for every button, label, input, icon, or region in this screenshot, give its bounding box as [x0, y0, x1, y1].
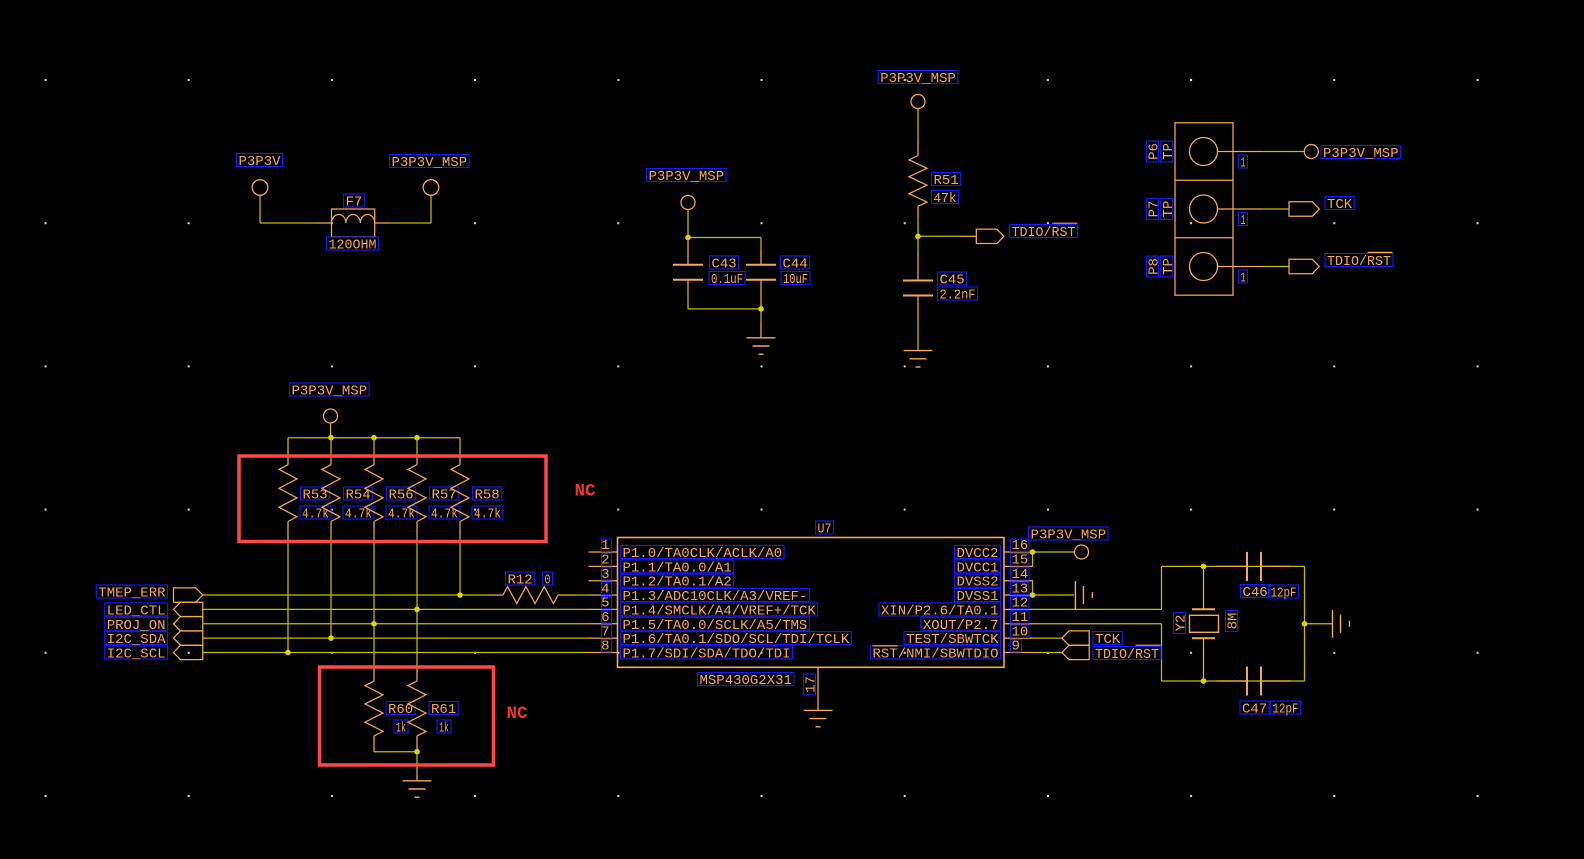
node junction	[1030, 592, 1036, 598]
resistor R57 4.7k	[408, 438, 460, 534]
svg-text:TP: TP	[1161, 258, 1177, 275]
svg-text:120OHM: 120OHM	[329, 238, 377, 254]
wire	[917, 322, 919, 351]
wire TMEP_ERR	[203, 594, 488, 596]
wire I2C_SCL	[203, 651, 589, 653]
wire	[373, 534, 375, 668]
svg-text:R51: R51	[934, 173, 959, 189]
off-page connector TDIO/RST	[1062, 645, 1161, 663]
svg-text:P3P3V_MSP: P3P3V_MSP	[880, 71, 956, 87]
svg-text:TCK: TCK	[1095, 632, 1121, 648]
svg-text:P3P3V_MSP: P3P3V_MSP	[1031, 528, 1107, 544]
off-page connector TDIO/RST	[1289, 252, 1393, 273]
pin 17 ground pin	[804, 667, 820, 710]
svg-text:C47: C47	[1242, 702, 1267, 718]
svg-text:P1.7/SDI/SDA/TDO/TDI: P1.7/SDI/SDA/TDO/TDI	[623, 646, 791, 662]
svg-text:F7: F7	[346, 195, 363, 211]
pin 11 XOUT/P2.7	[921, 610, 1033, 634]
wire I2C_SDA	[203, 637, 589, 639]
resistor R54 4.7k	[322, 438, 374, 534]
svg-text:R61: R61	[431, 702, 456, 718]
wire TCK	[1033, 637, 1062, 639]
node junction	[915, 234, 921, 240]
svg-text:10uF: 10uF	[783, 272, 808, 288]
node junction	[414, 435, 420, 441]
wire TDIO/RST	[1033, 651, 1062, 653]
svg-text:2.2nF: 2.2nF	[940, 288, 976, 304]
resistor R56 4.7k	[365, 438, 417, 534]
svg-text:NC: NC	[507, 704, 529, 724]
wire	[688, 295, 761, 322]
wire	[1262, 208, 1289, 210]
svg-text:P3P3V_MSP: P3P3V_MSP	[392, 155, 468, 171]
svg-text:I2C_SCL: I2C_SCL	[107, 646, 166, 662]
svg-text:C46: C46	[1243, 585, 1268, 601]
wire	[917, 236, 919, 251]
svg-text:1: 1	[1241, 156, 1246, 172]
ferrite bead F7	[317, 194, 389, 254]
wire	[330, 534, 332, 638]
wire	[288, 423, 460, 438]
pin 10 TEST/SBWTCK	[904, 624, 1033, 648]
pin 13 DVSS1	[955, 581, 1034, 605]
svg-text:RST/NMI/SBWTDIO: RST/NMI/SBWTDIO	[873, 646, 999, 662]
wire PROJ_ON	[203, 623, 589, 625]
wire	[1262, 266, 1289, 268]
svg-text:0: 0	[545, 573, 551, 589]
net label LED_CTL	[105, 602, 203, 619]
node junction	[414, 607, 420, 613]
wire DVCC	[1033, 552, 1075, 566]
wire	[575, 594, 589, 596]
svg-text:C43: C43	[712, 257, 737, 273]
svg-text:NC: NC	[575, 481, 597, 501]
svg-text:MSP430G2X31: MSP430G2X31	[700, 673, 792, 689]
ground	[804, 709, 833, 711]
svg-text:TDIO/RST: TDIO/RST	[1095, 647, 1159, 663]
pin 9 RST/NMI/SBWTDIO	[871, 639, 1034, 663]
node junction	[285, 650, 291, 656]
wire	[416, 534, 418, 668]
overline RST	[873, 645, 898, 647]
pin 3 P1.2/TA0.1/A2	[589, 567, 734, 591]
label P6 TP	[1147, 141, 1177, 162]
svg-text:9: 9	[1012, 639, 1020, 655]
NC box	[239, 456, 546, 542]
svg-text:8: 8	[601, 639, 609, 655]
NC box	[320, 667, 494, 765]
resistor R12 0	[488, 572, 575, 604]
wire	[688, 210, 761, 251]
svg-text:U7: U7	[818, 522, 832, 538]
svg-text:8M: 8M	[1226, 613, 1242, 630]
ground	[904, 350, 933, 352]
label P7 TP	[1147, 199, 1177, 220]
wire	[1305, 566, 1333, 681]
op-amp U7 body	[618, 521, 1005, 689]
net label I2C_SCL	[105, 645, 203, 662]
node junction	[1201, 564, 1207, 570]
ground	[1074, 581, 1076, 609]
resistor R60 1k	[365, 668, 415, 752]
ground	[403, 765, 432, 797]
node junction	[758, 306, 764, 312]
wire XOUT	[1033, 624, 1305, 681]
svg-text:1k: 1k	[439, 721, 449, 737]
power symbol P3P3V_MSP	[1029, 527, 1109, 559]
pin 1 of P6	[1218, 152, 1263, 172]
crystal Y2 8M	[1174, 566, 1242, 681]
capacitor C47 12pF	[1217, 667, 1301, 718]
pin 1 of P8	[1218, 267, 1263, 287]
label P8 TP	[1147, 256, 1177, 277]
svg-text:TCK: TCK	[1327, 197, 1353, 213]
capacitor C44	[746, 250, 810, 309]
node junction	[685, 235, 691, 241]
node junction	[1302, 621, 1308, 627]
capacitor C43	[673, 238, 745, 296]
wire	[374, 752, 417, 765]
wire	[918, 218, 976, 236]
test point P7 circle	[1190, 195, 1218, 223]
power symbol P3P3V_MSP	[390, 155, 470, 196]
pin 7 P1.6/TA0.1/SDO/SCL/TDI/TCLK	[589, 624, 852, 648]
capacitor C45 2.2nF	[903, 251, 978, 322]
svg-text:1k: 1k	[396, 721, 406, 737]
wire DVSS	[1033, 581, 1075, 595]
svg-text:0.1uF: 0.1uF	[711, 272, 743, 288]
wire	[287, 534, 289, 652]
svg-text:12pF: 12pF	[1271, 586, 1297, 602]
wire	[260, 195, 317, 224]
svg-text:12pF: 12pF	[1273, 702, 1299, 718]
svg-text:P3P3V_MSP: P3P3V_MSP	[292, 384, 368, 400]
svg-text:P3P3V_MSP: P3P3V_MSP	[1323, 146, 1399, 162]
net label TMEP_ERR	[96, 585, 203, 602]
svg-text:TMEP_ERR: TMEP_ERR	[98, 586, 166, 602]
wire LED_CTL	[203, 608, 589, 610]
node junction	[371, 435, 377, 441]
power symbol P3P3V_MSP	[878, 71, 958, 109]
pin 14 DVSS2	[955, 567, 1034, 591]
pin 6 P1.5/TA0.0/SCLK/A5/TMS	[589, 610, 810, 634]
wire	[917, 109, 919, 142]
net label PROJ_ON	[105, 617, 203, 634]
resistor R51 47k	[909, 141, 961, 218]
node junction	[1201, 678, 1207, 684]
off-page connector TCK	[1289, 197, 1354, 217]
svg-text:17: 17	[804, 676, 820, 693]
svg-text:47k: 47k	[934, 191, 957, 207]
pin 5 P1.4/SMCLK/A4/VREF+/TCK	[589, 596, 818, 620]
off-page connector TCK	[1062, 631, 1122, 648]
resistor R58 4.7k	[451, 438, 503, 534]
node junction	[328, 635, 334, 641]
svg-text:1: 1	[1241, 213, 1246, 229]
wire	[389, 195, 431, 224]
svg-text:Y2: Y2	[1174, 615, 1190, 632]
pin 12 XIN/P2.6/TA0.1	[879, 596, 1033, 620]
node junction	[371, 621, 377, 627]
resistor R61 1k	[408, 668, 458, 752]
pin 1 of P7	[1218, 209, 1263, 229]
svg-text:TDIO/RST: TDIO/RST	[1327, 254, 1391, 270]
power symbol P3P3V_MSP	[1304, 145, 1400, 163]
node junction	[1030, 549, 1036, 555]
svg-text:C45: C45	[940, 273, 965, 289]
svg-text:1: 1	[1241, 271, 1246, 287]
pin 1 P1.0/TA0CLK/ACLK/A0	[589, 538, 785, 562]
ground	[747, 322, 776, 354]
svg-text:P3P3V_MSP: P3P3V_MSP	[649, 169, 725, 185]
wire	[459, 534, 461, 595]
pin 16 DVCC2	[955, 538, 1034, 562]
pin 8 P1.7/SDI/SDA/TDO/TDI	[589, 639, 793, 663]
svg-text:TDIO/RST: TDIO/RST	[1012, 225, 1076, 241]
node junction	[328, 435, 334, 441]
test point P6 circle	[1190, 138, 1218, 166]
pin 2 P1.1/TA0.0/A1	[589, 553, 734, 577]
test point connector P6 P7 P8	[1175, 123, 1233, 295]
svg-text:R58: R58	[475, 488, 500, 504]
svg-text:R12: R12	[508, 573, 533, 589]
wire	[1262, 151, 1304, 153]
off-page connector TDIO/RST	[976, 223, 1077, 243]
pin 15 DVCC1	[955, 553, 1034, 577]
svg-text:C44: C44	[783, 257, 808, 273]
svg-text:4.7k: 4.7k	[474, 507, 501, 523]
power symbol P3P3V	[237, 154, 283, 196]
node junction	[414, 749, 420, 755]
test point P8 circle	[1190, 253, 1218, 281]
svg-text:TP: TP	[1161, 143, 1177, 160]
net label I2C_SDA	[105, 631, 203, 648]
power symbol P3P3V_MSP	[290, 383, 370, 423]
wire XIN	[1033, 566, 1305, 609]
svg-text:P3P3V: P3P3V	[239, 154, 282, 170]
ground	[1332, 610, 1334, 638]
node junction	[457, 592, 463, 598]
resistor R53 4.7k	[279, 438, 331, 534]
capacitor C46 12pF	[1217, 552, 1299, 602]
power symbol P3P3V_MSP	[647, 169, 727, 210]
svg-text:TP: TP	[1161, 201, 1177, 218]
pin 4 P1.3/ADC10CLK/A3/VREF-	[589, 581, 810, 605]
